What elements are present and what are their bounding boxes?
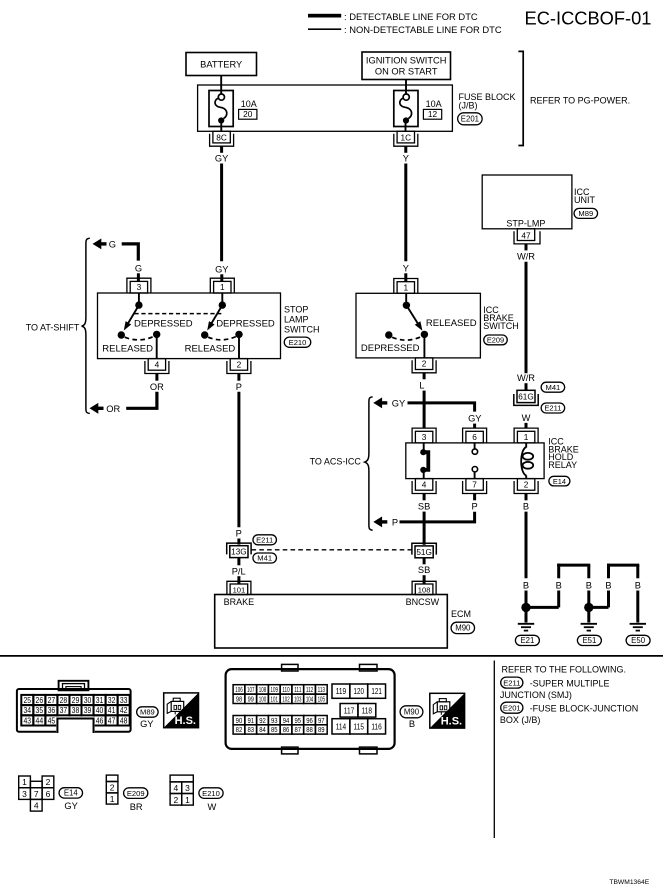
svg-text:OR: OR: [150, 382, 164, 392]
svg-text:IGNITION SWITCH: IGNITION SWITCH: [366, 55, 447, 65]
svg-text:86: 86: [283, 725, 290, 734]
svg-text:112: 112: [306, 685, 313, 694]
svg-text:10A: 10A: [426, 99, 442, 109]
svg-text:96: 96: [306, 716, 313, 725]
svg-text:E21: E21: [520, 636, 534, 645]
svg-text:M89: M89: [578, 209, 593, 218]
svg-text:G: G: [109, 239, 116, 249]
svg-text:TO ACS-ICC: TO ACS-ICC: [310, 457, 362, 467]
svg-text:LAMP: LAMP: [284, 314, 309, 324]
svg-text:M89: M89: [140, 708, 155, 717]
svg-text:W: W: [522, 413, 531, 423]
svg-text:SWITCH: SWITCH: [483, 321, 519, 331]
svg-text:ECM: ECM: [451, 609, 471, 619]
svg-text:1: 1: [403, 282, 408, 292]
svg-text:GY: GY: [64, 801, 77, 811]
svg-text:2: 2: [237, 359, 242, 369]
svg-text:31: 31: [96, 695, 104, 705]
svg-text:: DETECTABLE LINE FOR DTC: : DETECTABLE LINE FOR DTC: [344, 11, 478, 22]
svg-text:REFER TO PG-POWER.: REFER TO PG-POWER.: [530, 95, 630, 105]
svg-text:39: 39: [84, 705, 92, 715]
svg-text:E201: E201: [461, 115, 479, 124]
svg-text:E209: E209: [127, 789, 145, 798]
svg-text:101: 101: [271, 695, 278, 704]
svg-text:STOP: STOP: [284, 305, 308, 315]
svg-text:-SUPER MULTIPLE: -SUPER MULTIPLE: [530, 678, 610, 688]
svg-text:97: 97: [318, 716, 325, 725]
svg-text:GY: GY: [140, 719, 153, 729]
svg-text:117: 117: [344, 706, 355, 716]
svg-text:BR: BR: [130, 802, 143, 812]
svg-text:GY: GY: [392, 398, 405, 408]
svg-text:91: 91: [247, 716, 254, 725]
svg-text:1: 1: [220, 282, 225, 292]
svg-text:STP-LMP: STP-LMP: [506, 218, 545, 228]
svg-text:DEPRESSED: DEPRESSED: [134, 318, 193, 329]
svg-text:32: 32: [108, 695, 116, 705]
svg-text:BRAKE: BRAKE: [224, 597, 255, 607]
svg-text:104: 104: [306, 695, 313, 704]
svg-text:7: 7: [34, 789, 39, 799]
svg-text:E211: E211: [256, 536, 273, 545]
svg-text:B: B: [605, 581, 611, 591]
svg-text:43: 43: [24, 715, 32, 725]
svg-text:108: 108: [259, 685, 266, 694]
svg-text:1C: 1C: [400, 133, 411, 143]
svg-text:(J/B): (J/B): [459, 101, 478, 111]
svg-text:1: 1: [524, 432, 529, 442]
svg-text:L: L: [419, 380, 424, 390]
svg-text:8C: 8C: [216, 133, 227, 143]
svg-text:12: 12: [428, 109, 438, 119]
svg-text:W/R: W/R: [517, 373, 535, 383]
svg-text:48: 48: [120, 715, 128, 725]
svg-text:EC-ICCBOF-01: EC-ICCBOF-01: [525, 7, 652, 28]
svg-text:10A: 10A: [241, 99, 257, 109]
svg-text:GY: GY: [215, 264, 228, 274]
svg-text:120: 120: [354, 686, 365, 696]
svg-text:RELEASED: RELEASED: [426, 318, 477, 329]
svg-text:2: 2: [46, 777, 51, 787]
svg-text:34: 34: [24, 705, 32, 715]
svg-text:20: 20: [243, 109, 253, 119]
svg-text:37: 37: [60, 705, 68, 715]
svg-text:115: 115: [354, 722, 365, 732]
svg-text:13G: 13G: [231, 548, 246, 557]
svg-text:M41: M41: [257, 554, 272, 563]
svg-text:114: 114: [336, 722, 347, 732]
svg-text:SB: SB: [418, 565, 430, 575]
svg-text:98: 98: [236, 695, 242, 704]
svg-text:28: 28: [60, 695, 68, 705]
svg-text:M90: M90: [404, 708, 420, 717]
svg-text:106: 106: [235, 685, 242, 694]
svg-text:111: 111: [294, 685, 301, 694]
svg-text:92: 92: [259, 716, 266, 725]
svg-text:108: 108: [418, 585, 431, 594]
svg-text:44: 44: [36, 715, 44, 725]
svg-text:1: 1: [22, 777, 27, 787]
svg-text:103: 103: [294, 695, 301, 704]
svg-text:E209: E209: [487, 336, 504, 345]
svg-text:UNIT: UNIT: [574, 195, 595, 205]
svg-text:7: 7: [472, 479, 477, 489]
svg-text:Y: Y: [403, 153, 409, 163]
svg-text:M41: M41: [546, 383, 561, 392]
svg-text:G: G: [135, 263, 142, 273]
svg-text:W: W: [208, 802, 217, 812]
svg-text:29: 29: [72, 695, 80, 705]
svg-text:DEPRESSED: DEPRESSED: [361, 343, 420, 354]
svg-text:107: 107: [247, 685, 254, 694]
svg-text:61G: 61G: [518, 392, 533, 401]
svg-text:82: 82: [236, 725, 243, 734]
svg-text:102: 102: [282, 695, 289, 704]
svg-text:26: 26: [36, 695, 44, 705]
svg-text:E51: E51: [582, 636, 596, 645]
svg-text:3: 3: [422, 432, 427, 442]
svg-text:E211: E211: [503, 678, 520, 687]
svg-text:2: 2: [422, 359, 427, 369]
svg-text:51G: 51G: [416, 548, 431, 557]
svg-text:B: B: [409, 719, 415, 729]
svg-text:45: 45: [48, 715, 56, 725]
svg-text:B: B: [556, 581, 562, 591]
svg-text:116: 116: [371, 722, 382, 732]
svg-text:1: 1: [110, 794, 115, 804]
svg-text:101: 101: [233, 585, 246, 594]
svg-text:JUNCTION (SMJ): JUNCTION (SMJ): [500, 690, 572, 700]
svg-text:6: 6: [472, 432, 477, 442]
svg-text:2: 2: [524, 479, 529, 489]
svg-text:2: 2: [174, 795, 179, 805]
svg-text:25: 25: [24, 695, 32, 705]
svg-text:GY: GY: [468, 414, 481, 424]
svg-text:Y: Y: [403, 263, 409, 273]
svg-text:B: B: [523, 581, 529, 591]
svg-text:36: 36: [48, 705, 56, 715]
svg-text:E210: E210: [289, 338, 307, 347]
svg-text:119: 119: [336, 686, 347, 696]
svg-text:RELEASED: RELEASED: [185, 343, 236, 354]
svg-text:: NON-DETECTABLE LINE FOR DTC: : NON-DETECTABLE LINE FOR DTC: [344, 24, 502, 35]
svg-text:B: B: [586, 581, 592, 591]
svg-text:BOX (J/B): BOX (J/B): [500, 715, 541, 725]
svg-text:TBWM1364E: TBWM1364E: [609, 879, 649, 886]
svg-text:85: 85: [271, 725, 278, 734]
svg-text:35: 35: [36, 705, 44, 715]
svg-text:DEPRESSED: DEPRESSED: [216, 318, 275, 329]
svg-text:47: 47: [521, 230, 531, 240]
svg-text:105: 105: [318, 695, 325, 704]
svg-text:109: 109: [271, 685, 278, 694]
svg-text:P/L: P/L: [232, 566, 246, 576]
svg-text:1: 1: [185, 795, 190, 805]
svg-text:46: 46: [96, 715, 104, 725]
svg-text:E14: E14: [553, 477, 566, 486]
svg-text:113: 113: [318, 685, 325, 694]
svg-text:83: 83: [247, 725, 254, 734]
svg-text:H.S.: H.S.: [441, 716, 462, 728]
svg-text:B: B: [523, 502, 529, 512]
svg-text:93: 93: [271, 716, 278, 725]
svg-text:REFER TO THE FOLLOWING.: REFER TO THE FOLLOWING.: [502, 664, 627, 674]
svg-text:38: 38: [72, 705, 80, 715]
svg-text:3: 3: [22, 789, 27, 799]
svg-text:3: 3: [137, 282, 142, 292]
svg-text:E50: E50: [631, 636, 646, 645]
svg-text:2: 2: [110, 783, 115, 793]
svg-text:RELEASED: RELEASED: [102, 343, 153, 354]
svg-text:88: 88: [306, 725, 313, 734]
svg-text:84: 84: [259, 725, 266, 734]
svg-text:3: 3: [185, 783, 190, 793]
svg-text:BNCSW: BNCSW: [406, 597, 440, 607]
svg-text:TO AT-SHIFT: TO AT-SHIFT: [26, 322, 80, 332]
svg-text:RELAY: RELAY: [548, 460, 577, 470]
svg-text:W/R: W/R: [517, 252, 535, 262]
svg-text:89: 89: [318, 725, 325, 734]
svg-text:100: 100: [259, 695, 266, 704]
svg-text:4: 4: [174, 783, 179, 793]
svg-text:95: 95: [294, 716, 301, 725]
svg-text:30: 30: [84, 695, 92, 705]
svg-text:47: 47: [108, 715, 116, 725]
svg-text:33: 33: [120, 695, 128, 705]
svg-text:GY: GY: [215, 153, 228, 163]
svg-text:SB: SB: [418, 502, 430, 512]
svg-text:E210: E210: [202, 789, 220, 798]
svg-text:121: 121: [371, 686, 382, 696]
svg-text:M90: M90: [455, 624, 471, 633]
svg-text:4: 4: [422, 479, 427, 489]
svg-text:41: 41: [108, 705, 116, 715]
svg-text:P: P: [471, 502, 477, 512]
svg-text:E211: E211: [544, 404, 561, 413]
svg-text:87: 87: [294, 725, 301, 734]
svg-text:E14: E14: [64, 789, 79, 798]
svg-text:27: 27: [48, 695, 56, 705]
svg-text:ON OR START: ON OR START: [375, 66, 438, 76]
svg-text:P: P: [236, 382, 242, 392]
svg-text:94: 94: [283, 716, 290, 725]
svg-text:90: 90: [236, 716, 243, 725]
svg-text:OR: OR: [106, 404, 120, 414]
svg-text:E201: E201: [503, 703, 521, 712]
svg-text:SWITCH: SWITCH: [284, 324, 320, 334]
svg-text:H.S.: H.S.: [175, 715, 196, 727]
svg-text:110: 110: [282, 685, 289, 694]
svg-text:4: 4: [155, 359, 160, 369]
svg-text:B: B: [635, 581, 641, 591]
svg-text:42: 42: [120, 705, 128, 715]
svg-text:P: P: [236, 529, 242, 539]
svg-text:BATTERY: BATTERY: [200, 59, 242, 69]
svg-text:99: 99: [248, 695, 254, 704]
svg-text:-FUSE BLOCK-JUNCTION: -FUSE BLOCK-JUNCTION: [530, 704, 639, 714]
svg-text:4: 4: [34, 801, 39, 811]
svg-text:118: 118: [362, 706, 373, 716]
svg-text:P: P: [392, 517, 398, 527]
svg-text:40: 40: [96, 705, 104, 715]
svg-text:6: 6: [46, 789, 51, 799]
